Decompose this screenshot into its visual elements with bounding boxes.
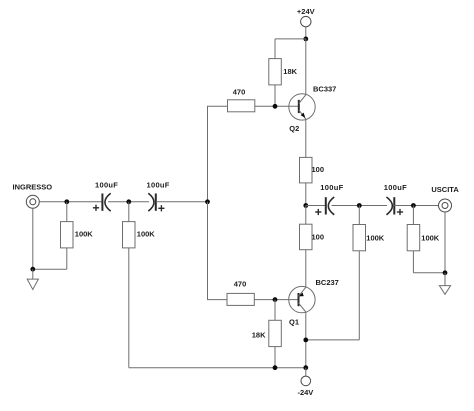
svg-text:100uF: 100uF: [95, 181, 118, 190]
node ground junction right: [443, 270, 448, 275]
capacitor 100uF (input left): [93, 193, 111, 211]
wire cap2 to bases column: [156, 201, 208, 203]
node -24V junction: [303, 365, 308, 370]
node second junction: [126, 199, 131, 204]
node Q1 base junction: [273, 297, 278, 302]
node input junction: [64, 199, 69, 204]
node output junction: [411, 203, 416, 208]
node 18K bottom junction: [273, 365, 278, 370]
svg-text:-24V: -24V: [297, 388, 313, 397]
resistor 100 (lower): [300, 206, 313, 288]
node mid rail junction: [303, 203, 308, 208]
wire bottom rail: [129, 367, 306, 369]
wire 470 lower to Q1 base junction: [254, 299, 298, 301]
terminal INGRESSO: [26, 195, 39, 208]
wire +24V to junction: [305, 26, 307, 39]
resistor 100K (D): [407, 206, 445, 273]
node Q2 base junction: [273, 104, 278, 109]
svg-text:100: 100: [312, 233, 325, 242]
transistor Q2 BC337: [289, 94, 315, 120]
wire mid junction to cap3: [306, 205, 326, 207]
svg-text:100K: 100K: [137, 229, 156, 238]
terminal USCITA: [439, 199, 452, 212]
wire Q1 collector down: [305, 312, 307, 368]
wire 470 upper to base junction: [255, 105, 299, 107]
resistor 100 (upper): [300, 157, 313, 183]
wire bases column down to 470 lower: [208, 202, 228, 300]
capacitor 100uF (output left): [315, 197, 334, 215]
svg-text:100K: 100K: [75, 229, 94, 238]
wire cap3 to junction: [332, 205, 388, 207]
resistor 470 (upper): [228, 100, 255, 112]
wire cap4 to output terminal: [394, 205, 438, 207]
wire input terminal down: [32, 208, 34, 269]
terminal -24V: [301, 376, 311, 386]
svg-text:+24V: +24V: [297, 7, 315, 16]
svg-text:470: 470: [233, 87, 246, 96]
transistor Q1 BC237: [289, 286, 315, 312]
svg-text:100uF: 100uF: [320, 183, 343, 192]
node output mid junction: [357, 203, 362, 208]
wire 18K bottom to base node: [274, 85, 276, 106]
wire to -24V terminal: [305, 368, 307, 376]
svg-text:100: 100: [312, 165, 325, 174]
wire input to first junction: [39, 201, 102, 203]
svg-text:BC237: BC237: [316, 278, 339, 287]
capacitor 100uF (output right): [387, 197, 404, 215]
svg-text:100K: 100K: [366, 234, 385, 243]
node ground junction left: [30, 267, 35, 272]
wire USCITA terminal down: [444, 212, 446, 273]
resistor 18K (lower): [269, 300, 282, 368]
wire 100 upper to mid junction: [305, 183, 307, 206]
resistor 100K (B): [123, 202, 136, 368]
capacitor 100uF (input right): [148, 193, 164, 211]
ground left: [27, 269, 38, 289]
resistor 100K (C): [306, 206, 366, 340]
wire Q2 emitter down to 100 upper: [305, 119, 307, 157]
svg-text:USCITA: USCITA: [431, 185, 459, 194]
resistor 100K (input A): [33, 202, 73, 269]
wire supply junction down to Q2 collector: [305, 39, 307, 95]
svg-text:INGRESSO: INGRESSO: [13, 183, 53, 192]
svg-text:100uF: 100uF: [147, 181, 170, 190]
svg-text:100K: 100K: [421, 234, 440, 243]
svg-text:Q1: Q1: [289, 318, 299, 327]
svg-text:470: 470: [234, 280, 247, 289]
wire cap1 to junction2: [108, 201, 149, 203]
wire top-left corner to 470 upper: [208, 106, 228, 202]
ground right: [439, 273, 450, 295]
svg-text:18K: 18K: [283, 67, 297, 76]
svg-text:BC337: BC337: [313, 84, 336, 93]
svg-text:Q2: Q2: [289, 124, 299, 133]
svg-text:18K: 18K: [252, 331, 266, 340]
resistor 470 (lower): [227, 293, 254, 305]
resistor 18K (upper): [269, 59, 282, 85]
node supply junction: [303, 37, 308, 42]
node bases junction: [205, 199, 210, 204]
wire down to 18K top: [274, 39, 276, 59]
wire junction to 18K column: [275, 38, 306, 40]
svg-text:100uF: 100uF: [384, 183, 407, 192]
terminal +24V: [301, 16, 311, 26]
node collector load junction: [303, 338, 308, 343]
